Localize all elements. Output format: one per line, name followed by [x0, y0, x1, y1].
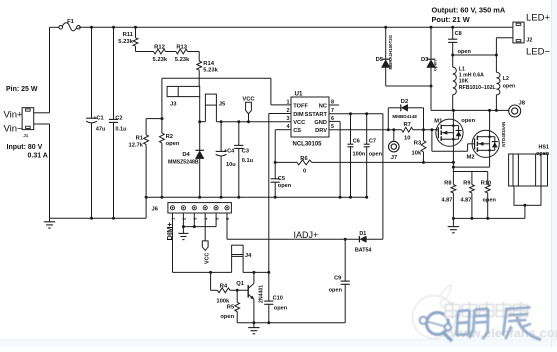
wire J6 pin6 IADJ [227, 213, 359, 239]
capacitor C2 [109, 27, 127, 218]
label Vin+ [4, 110, 24, 121]
svg-text:J2: J2 [526, 37, 532, 43]
svg-text:4.87: 4.87 [442, 197, 453, 203]
svg-text:open: open [483, 197, 497, 203]
svg-text:J7: J7 [391, 155, 397, 161]
label LED+ [526, 13, 550, 24]
svg-text:2N4401: 2N4401 [258, 285, 264, 303]
node top rail junctions [90, 26, 454, 29]
wire output minus rail [451, 38, 513, 57]
ground J6 [178, 227, 188, 240]
power tag VCC [242, 96, 255, 121]
ground sense [448, 218, 459, 232]
svg-text:D3: D3 [421, 57, 429, 63]
wire M1 drain [452, 110, 454, 119]
svg-text:open: open [461, 118, 475, 124]
wire U1 pin4 CS [275, 130, 291, 163]
svg-text:open: open [329, 288, 343, 294]
wire U1 pin8 NC stub [329, 104, 339, 106]
wire sense bus [453, 172, 487, 185]
wire R13 to R14 [188, 52, 200, 62]
jumper J5 [205, 94, 226, 122]
svg-text:+C4: +C4 [224, 148, 235, 154]
fuse F1 [59, 19, 80, 31]
wire switch node rail [431, 86, 509, 112]
svg-text:IADJ+: IADJ+ [294, 230, 319, 240]
diode D5 [376, 27, 393, 86]
svg-text:+C1: +C1 [93, 115, 103, 121]
resistor R14 [197, 61, 219, 74]
svg-text:10: 10 [404, 135, 410, 141]
svg-text:NC: NC [319, 103, 327, 109]
svg-text:10K: 10K [459, 79, 469, 85]
wire J1 pin1 to left rail [34, 27, 50, 113]
transistor M2 [467, 122, 506, 161]
capacitor C1 [86, 27, 106, 218]
svg-text:open: open [503, 83, 515, 89]
svg-text:R1: R1 [136, 136, 144, 142]
svg-text:VCC: VCC [293, 120, 305, 126]
U1 pin numbers [287, 99, 335, 130]
label Pout [432, 15, 470, 24]
svg-text:SSTART: SSTART [305, 112, 328, 118]
svg-text:Q1: Q1 [236, 281, 245, 287]
wire J3 to D4 [198, 97, 201, 151]
svg-text:MMSZ5248B: MMSZ5248B [168, 159, 199, 165]
wire J6 pin5 [182, 213, 216, 228]
svg-text:12.7k: 12.7k [128, 143, 143, 149]
resistor R1 [128, 135, 148, 149]
wire J6 pin3 [193, 213, 195, 227]
svg-text:M2: M2 [467, 155, 475, 161]
label Input 80V [7, 144, 48, 160]
wire M2 source [453, 157, 489, 167]
wire J4 right segment [243, 271, 270, 274]
svg-text:L1: L1 [459, 66, 465, 72]
svg-text:J8: J8 [519, 101, 526, 107]
svg-text:open: open [278, 183, 292, 189]
svg-text:L2: L2 [503, 76, 509, 82]
svg-text:47u: 47u [96, 127, 106, 133]
svg-text:R12: R12 [154, 44, 165, 50]
label Vin- [4, 124, 24, 135]
svg-text:Pout: 21 W: Pout: 21 W [432, 15, 470, 24]
svg-text:MBRA1H100T3G: MBRA1H100T3G [388, 34, 393, 69]
wire R14 down to J3 [198, 70, 200, 86]
capacitor C4 [216, 122, 237, 198]
svg-text:LED−: LED− [526, 47, 550, 58]
wire D5 to D3 node [386, 85, 433, 88]
wire R4 to Q1 base [230, 289, 248, 292]
svg-text:R10: R10 [481, 180, 491, 186]
svg-text:Input: 80 V: Input: 80 V [7, 144, 43, 151]
wire J6 pin2 [182, 213, 184, 227]
svg-text:HS1: HS1 [539, 145, 550, 151]
resistor R10 [481, 180, 497, 218]
svg-text:open: open [433, 60, 438, 71]
wire SSTART riser [382, 114, 384, 240]
svg-text:100n: 100n [353, 151, 366, 157]
svg-text:C9: C9 [334, 276, 341, 282]
svg-text:D4: D4 [182, 152, 190, 158]
svg-text:VCC: VCC [204, 253, 210, 264]
svg-text:0: 0 [303, 168, 306, 174]
resistor R12 [153, 44, 168, 63]
svg-text:F1: F1 [67, 19, 75, 25]
svg-text:U1: U1 [295, 90, 303, 97]
svg-text:5.23k: 5.23k [175, 57, 190, 63]
jumper J4 [232, 245, 253, 272]
inductor L2 [496, 55, 515, 110]
wire sense ground rail [452, 217, 525, 220]
wire R2 bottom [161, 143, 163, 197]
transistor M1 [434, 118, 475, 146]
resistor R13 [175, 44, 190, 63]
svg-text:Pin: 25 W: Pin: 25 W [6, 86, 38, 93]
svg-text:4.87: 4.87 [461, 197, 472, 203]
resistor R9 [461, 180, 475, 218]
wire TOFF horizontal [162, 78, 291, 105]
resistor R7 [402, 122, 413, 141]
resistor R8 [442, 180, 456, 218]
svg-text:open: open [166, 141, 180, 147]
ground input [44, 218, 55, 228]
svg-text:open: open [274, 305, 288, 311]
svg-text:Vin+: Vin+ [4, 110, 24, 121]
heatsink HS1 [509, 145, 549, 219]
svg-text:R2: R2 [166, 134, 173, 140]
label IADJ+ [294, 230, 319, 240]
svg-text:1: 1 [287, 99, 290, 105]
wire M2 drain [489, 110, 491, 130]
svg-text:5.23k: 5.23k [203, 68, 218, 74]
wire U1 pin2 DIM down [269, 114, 291, 273]
resistor R4 [216, 283, 230, 304]
svg-text:J1: J1 [23, 133, 29, 138]
svg-text:C3: C3 [242, 148, 249, 154]
svg-text:MMBD4148: MMBD4148 [392, 114, 417, 119]
diode D4 zener [168, 150, 204, 197]
label LED- [526, 47, 550, 58]
wire VCC seg A [200, 121, 206, 123]
op-amp U1 NCL30105 box [291, 90, 329, 147]
inductor L1 [453, 55, 497, 110]
wire CS rail left [274, 161, 297, 164]
svg-text:NCL30105: NCL30105 [293, 141, 323, 147]
resistor R3 [412, 130, 426, 163]
transistor Q1 2N4401 [236, 272, 264, 322]
capacitor C10 [264, 272, 288, 322]
svg-text:VCC: VCC [242, 96, 255, 102]
svg-text:D5: D5 [376, 57, 384, 63]
svg-text:C2: C2 [115, 115, 122, 121]
svg-text:10u: 10u [226, 162, 236, 168]
svg-text:5.23k: 5.23k [153, 57, 168, 63]
wire U1 pin5 DRV rail [329, 128, 402, 131]
test point J8 [509, 101, 526, 118]
wire R4 branch [211, 272, 218, 290]
svg-text:open: open [369, 151, 383, 157]
svg-text:J6: J6 [152, 207, 159, 213]
svg-text:open: open [536, 151, 549, 157]
wire R12 to R13 [166, 51, 177, 53]
svg-text:D2: D2 [401, 99, 408, 105]
wire Q1 ground rail [237, 321, 345, 324]
svg-text:BAT54: BAT54 [355, 248, 372, 254]
svg-text:5.23k: 5.23k [118, 39, 133, 45]
wire U1 pin7 SSTART [329, 112, 383, 115]
watermark elecfans logo [413, 285, 557, 342]
J6 pin numbers [171, 217, 231, 220]
wire DRV to gate [413, 128, 439, 131]
diode D1 BAT54 [355, 231, 383, 254]
resistor R2 [160, 133, 180, 147]
wire top rail [79, 26, 513, 28]
svg-text:LED+: LED+ [526, 13, 550, 24]
svg-text:GND: GND [314, 120, 327, 126]
svg-text:R8: R8 [444, 180, 451, 186]
svg-text:8: 8 [331, 99, 334, 105]
svg-text:J3: J3 [170, 101, 177, 107]
svg-text:R9: R9 [463, 180, 470, 186]
wire VCC rail [216, 120, 291, 123]
resistor R6 [297, 156, 312, 174]
label Output [432, 6, 506, 15]
resistor R11 [118, 27, 138, 51]
capacitor C8 [448, 27, 471, 55]
svg-text:R6: R6 [300, 156, 308, 162]
svg-text:RFB1010–102L: RFB1010–102L [459, 85, 497, 91]
svg-text:R7: R7 [403, 122, 410, 128]
capacitor C7 [364, 114, 383, 198]
svg-text:0.31 A: 0.31 A [28, 153, 48, 160]
capacitor C5 [271, 162, 292, 197]
power tag VCC J6 [202, 213, 210, 264]
diode D3 [421, 27, 438, 86]
svg-text:Output: 60 V, 350 mA: Output: 60 V, 350 mA [432, 6, 506, 15]
wire lower ground rail [50, 217, 147, 220]
svg-text:open: open [220, 314, 234, 320]
svg-text:R13: R13 [176, 44, 187, 50]
wire M1 source [452, 146, 455, 184]
wire CS rail right [312, 161, 455, 164]
svg-text:10k: 10k [412, 151, 422, 157]
connector J1 Vin [22, 108, 34, 138]
resistor R5 [220, 290, 239, 323]
svg-text:D1: D1 [359, 231, 366, 237]
svg-text:C6: C6 [353, 138, 360, 144]
wire U1 pin6 GND [329, 121, 340, 197]
ground Q1 [248, 323, 259, 334]
test point J7 [389, 128, 400, 161]
capacitor C6 [348, 114, 366, 198]
wire signal ground rail [145, 196, 369, 199]
svg-text:R3: R3 [414, 141, 422, 147]
svg-text:1 mH 0.6A: 1 mH 0.6A [459, 73, 484, 79]
svg-text:7: 7 [331, 108, 334, 114]
svg-text:DRV: DRV [315, 128, 327, 134]
svg-text:M1: M1 [434, 118, 443, 124]
svg-text:R5: R5 [227, 305, 235, 311]
svg-text:open: open [458, 49, 472, 55]
svg-text:0.1u: 0.1u [115, 127, 127, 133]
svg-text:J4: J4 [245, 253, 252, 259]
svg-text:R11: R11 [123, 32, 134, 38]
capacitor C9 [329, 238, 350, 323]
wire J1 pin2 down [34, 124, 50, 218]
svg-text:R4: R4 [220, 283, 228, 289]
wire R11 to R12 [136, 51, 154, 53]
svg-text:TOFF: TOFF [293, 103, 308, 109]
svg-text:J5: J5 [219, 102, 226, 108]
wire J6 pin1 down [173, 213, 232, 274]
wire gate link M2 [432, 130, 475, 152]
svg-text:CS: CS [293, 128, 301, 134]
svg-text:C10: C10 [273, 296, 283, 302]
svg-text:NTD4815AN: NTD4815AN [501, 122, 506, 147]
capacitor C3 [234, 122, 253, 198]
wire R2 top branch [161, 78, 164, 133]
svg-text:3: 3 [287, 116, 290, 122]
svg-text:0.1u: 0.1u [242, 158, 254, 164]
label DIM+ [165, 222, 174, 241]
wire R1 top link [146, 119, 162, 135]
jumper J3 [167, 86, 200, 107]
svg-text:DIM: DIM [293, 112, 304, 118]
diode D2 [388, 99, 423, 130]
svg-text:C8: C8 [455, 31, 462, 37]
svg-text:Vin−: Vin− [4, 124, 24, 135]
wire top rail left of fuse [50, 26, 61, 28]
svg-text:R14: R14 [203, 61, 214, 67]
svg-text:C5: C5 [278, 176, 285, 182]
label Pin 25W [6, 86, 38, 93]
svg-text:100k: 100k [216, 299, 230, 305]
wire R1 bottom [145, 144, 147, 218]
svg-text:2: 2 [287, 108, 290, 114]
svg-text:C7: C7 [369, 138, 376, 144]
U1 pin names [293, 103, 327, 134]
connector J6 [152, 203, 232, 213]
connector J2 LED [513, 22, 533, 43]
